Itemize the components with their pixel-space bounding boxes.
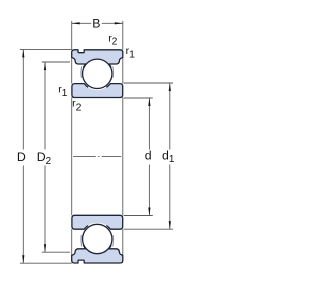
- svg-text:D: D: [17, 150, 26, 164]
- svg-text:d: d: [145, 148, 152, 162]
- svg-text:B: B: [92, 17, 100, 31]
